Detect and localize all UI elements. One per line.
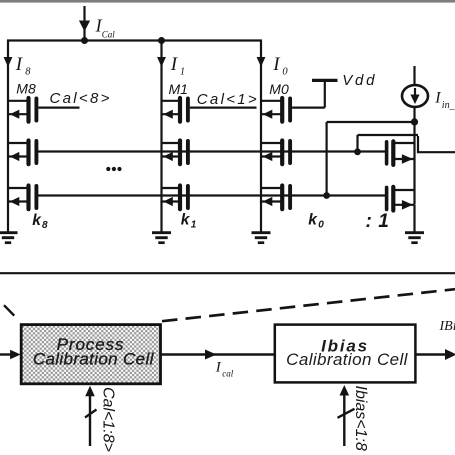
ground col1 — [152, 202, 171, 243]
current arrow I_1 — [157, 57, 166, 67]
svg-text:8: 8 — [25, 67, 31, 78]
current source I_in — [402, 66, 428, 107]
input arrow — [0, 350, 21, 360]
svg-text:I: I — [215, 360, 222, 376]
wire: M8 gate — [38, 106, 79, 108]
wire: M0 gate to Vdd — [292, 80, 325, 107]
callout dashed line right — [162, 289, 455, 321]
wire: column-0 rail — [260, 41, 262, 203]
wire: bottom gate bus — [36, 194, 386, 196]
wire: gate tie horizontal — [358, 134, 419, 136]
svg-text:I: I — [272, 54, 281, 75]
transistor col8 row2 — [8, 141, 36, 165]
svg-text:in_r: in_r — [442, 100, 455, 111]
transistor col8 row3 — [8, 186, 36, 210]
wire: gate tie riser — [356, 135, 358, 152]
svg-text:1: 1 — [180, 67, 185, 78]
svg-text:cal: cal — [222, 368, 233, 378]
node: bottom bus junction — [323, 192, 330, 199]
wire: column-1 rail — [160, 41, 162, 203]
ground right — [405, 205, 424, 243]
transistor col0 row3 — [261, 186, 290, 210]
block: Process Calibration Cell — [21, 325, 160, 384]
svg-text:Cal: Cal — [102, 29, 116, 39]
wire: top supply rail — [7, 39, 262, 41]
svg-text:I: I — [170, 54, 179, 75]
label I_in — [434, 90, 455, 111]
current arrow I_8 — [4, 57, 13, 67]
transistor col0 row2 — [261, 141, 290, 165]
bus arrow Cal&lt;1:8&gt; — [85, 386, 97, 446]
arrowhead I_cal — [205, 350, 217, 360]
ground col8 — [0, 202, 18, 243]
svg-text:Cal<1:8>: Cal<1:8> — [100, 387, 117, 452]
transistor M1 — [162, 98, 188, 122]
wire: M1 gate — [190, 106, 257, 108]
svg-text:k: k — [181, 212, 191, 229]
label k_8 — [32, 212, 48, 231]
svg-text:k: k — [32, 212, 42, 229]
label I_cal — [215, 360, 234, 379]
svg-text:0: 0 — [282, 67, 288, 78]
wire I_cal — [161, 353, 276, 355]
bus arrow Ibias&lt;1:8&gt; — [338, 385, 355, 446]
separator line — [0, 272, 455, 274]
svg-text:IBias: IBias — [439, 319, 455, 334]
svg-text:M0: M0 — [269, 81, 289, 97]
block: Ibias Calibration Cell — [275, 325, 416, 383]
power Vdd — [312, 79, 338, 82]
transistor col1 row2 — [162, 141, 188, 165]
label I_8 — [15, 54, 32, 78]
svg-text:0: 0 — [318, 220, 324, 231]
label :1 ratio — [366, 211, 389, 232]
transistor col1 row3 — [162, 186, 188, 210]
svg-text:Vdd: Vdd — [342, 72, 377, 89]
node: middle bus junction — [354, 148, 361, 155]
output arrow IBias — [415, 349, 455, 360]
svg-text:Ibias<1:8: Ibias<1:8 — [352, 386, 369, 451]
node: I_1 junction — [158, 37, 165, 44]
svg-text::: : — [366, 211, 372, 232]
svg-text:M8: M8 — [16, 80, 36, 96]
node: mirror drain — [411, 118, 418, 125]
label I_0 — [272, 54, 288, 78]
transistor M8 — [8, 98, 36, 122]
svg-text:k: k — [308, 212, 318, 229]
ground col0 — [252, 202, 271, 243]
transistor mirror top — [387, 141, 415, 165]
svg-text:M1: M1 — [169, 81, 188, 97]
svg-text:Calibration Cell: Calibration Cell — [33, 349, 155, 368]
svg-text:Calibration Cell: Calibration Cell — [286, 350, 408, 369]
callout dash left — [4, 305, 14, 315]
wire: drain to cascode — [327, 121, 413, 123]
label I_Cal — [95, 16, 116, 40]
current arrow I_Cal — [79, 6, 90, 41]
label k_1 — [181, 212, 197, 231]
wire: middle gate bus — [36, 150, 386, 152]
node: I_Cal junction — [81, 37, 88, 44]
label I_1 — [170, 54, 185, 78]
transistor M0 — [261, 98, 290, 122]
wire: riser to bottom bus — [326, 122, 328, 196]
svg-text:I: I — [434, 90, 441, 107]
wire: column-8 rail — [7, 41, 9, 203]
svg-text:8: 8 — [42, 220, 48, 231]
ellipsis between columns — [106, 167, 121, 171]
svg-text:1: 1 — [378, 211, 389, 232]
wire: right rail — [413, 107, 415, 205]
svg-text:1: 1 — [191, 220, 197, 231]
wire: output to right edge — [418, 136, 455, 152]
transistor mirror bottom — [387, 187, 415, 211]
svg-text:I: I — [15, 54, 24, 75]
current arrow I_0 — [257, 57, 266, 67]
label k_0 — [308, 212, 324, 231]
svg-text:Cal<8>: Cal<8> — [50, 90, 112, 107]
svg-text:Cal<1>: Cal<1> — [197, 91, 259, 108]
